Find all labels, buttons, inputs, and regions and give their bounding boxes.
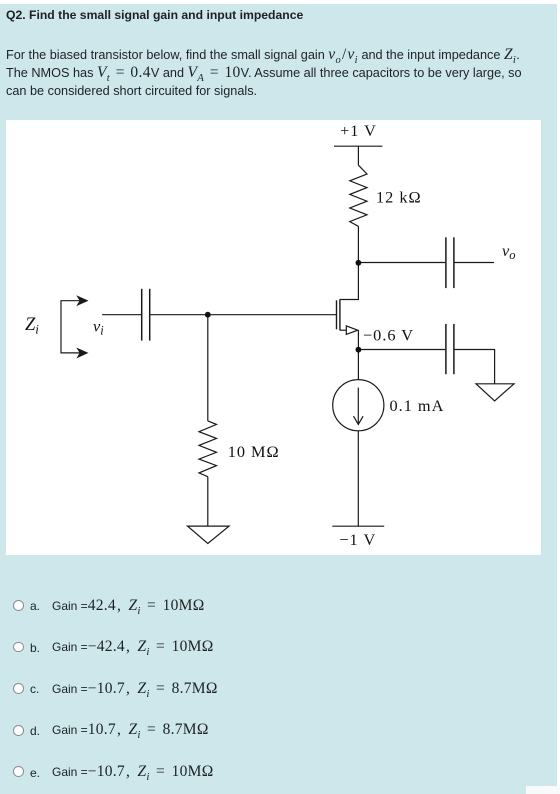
- wire: C2 to vo terminal: [455, 262, 495, 264]
- capacitor C3 bypass plates: [446, 324, 454, 374]
- Zi bracket arrowheads: [78, 297, 87, 305]
- svg-text:+1 V: +1 V: [340, 121, 377, 140]
- transistor M1 source arrow: [346, 326, 357, 335]
- svg-text:vo: vo: [502, 241, 515, 262]
- transistor M1 NMOS body: [337, 299, 340, 330]
- wire: +1V rail to R1: [357, 146, 359, 165]
- ground right: [476, 384, 514, 401]
- transistor M1 source lead: [340, 329, 347, 331]
- wire: source node to bypass capacitor C3: [358, 349, 445, 351]
- wire: current source to -1V rail: [357, 431, 359, 526]
- wire: R2 to left ground: [207, 477, 209, 526]
- svg-text:vi: vi: [93, 317, 104, 338]
- svg-text:−0.6 V: −0.6 V: [363, 326, 414, 345]
- node: source: [356, 347, 362, 353]
- wire: C1 to M1 gate through input node: [150, 314, 336, 316]
- capacitor C1 input coupling plates: [142, 289, 150, 341]
- resistor R1 12k zigzag: [350, 165, 367, 226]
- svg-text:Zi: Zi: [25, 315, 39, 337]
- svg-text:10 MΩ: 10 MΩ: [228, 442, 280, 461]
- wire: R1 to drain node and M1 drain: [340, 226, 359, 299]
- current source I1 circle: [333, 380, 384, 431]
- current source I1 arrow: [357, 388, 359, 424]
- wire: vi to input capacitor C1: [102, 314, 141, 316]
- resistor R2 10M zigzag: [199, 421, 217, 477]
- wire: C3 to right ground: [455, 350, 495, 384]
- ground left: [188, 526, 230, 543]
- svg-text:12 kΩ: 12 kΩ: [376, 187, 422, 206]
- wire: M1 source to source node to current source: [357, 330, 359, 380]
- wire: input node down to R2: [207, 315, 209, 421]
- Zi measurement bracket: [61, 301, 80, 353]
- supply -1V bar: [332, 525, 384, 527]
- wire: drain node to output capacitor C2: [358, 262, 445, 264]
- capacitor C2 output coupling plates: [446, 237, 454, 288]
- svg-text:−1 V: −1 V: [339, 530, 376, 549]
- svg-text:0.1 mA: 0.1 mA: [390, 396, 445, 415]
- supply +1V bar: [334, 145, 383, 147]
- node: drain: [356, 260, 362, 266]
- node: input gate: [205, 312, 211, 318]
